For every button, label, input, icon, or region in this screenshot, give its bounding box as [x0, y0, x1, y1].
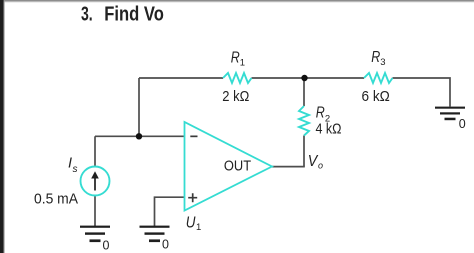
wire: R2 bottom lead down to output node: [303, 136, 305, 167]
svg-text:1: 1: [240, 57, 245, 68]
svg-text:2 kΩ: 2 kΩ: [222, 88, 249, 105]
wire: R3 to top-right corner, down to ground: [393, 78, 451, 107]
wire: left vertical from top corner down to inverting-input node: [138, 78, 140, 136]
ground (below op-amp plus input): [140, 226, 170, 242]
top window edge line: [0, 0, 474, 1]
op-amp minus pin symbol: [190, 136, 197, 138]
svg-text:1: 1: [196, 222, 201, 233]
svg-text:Find Vo: Find Vo: [104, 4, 164, 26]
resistor R3 (zigzag): [364, 73, 393, 83]
op-amp U1 triangle: [185, 122, 273, 211]
svg-text:I: I: [68, 156, 72, 172]
svg-text:6 kΩ: 6 kΩ: [362, 88, 390, 105]
left black sidebar: [0, 0, 4, 253]
svg-text:3: 3: [380, 57, 385, 68]
svg-text:3.: 3.: [81, 4, 93, 26]
svg-text:o: o: [318, 160, 323, 170]
wire: current source bottom to ground: [94, 196, 96, 227]
wire: op-amp output to Vo node: [272, 166, 305, 168]
ground (top right): [435, 107, 465, 121]
svg-text:0.5 mA: 0.5 mA: [34, 190, 78, 207]
svg-text:R: R: [316, 105, 325, 122]
wire: R2 top lead from junction: [303, 78, 305, 106]
wire: R1 right lead to junction to R3: [252, 77, 365, 79]
svg-text:OUT: OUT: [224, 159, 251, 175]
wire: noninverting input to ground stub: [155, 197, 185, 226]
op-amp plus pin symbol: [188, 193, 197, 202]
wire: inverting input horizontal from source top to op-amp: [95, 135, 185, 137]
svg-text:0: 0: [162, 238, 169, 252]
svg-text:4 kΩ: 4 kΩ: [316, 122, 342, 138]
svg-text:s: s: [73, 164, 78, 175]
current source arrow: [91, 171, 99, 190]
node: junction dot at R2 / top net: [301, 75, 307, 81]
svg-text:R: R: [231, 49, 240, 66]
current source Is circle: [81, 167, 110, 196]
svg-text:U: U: [186, 215, 196, 232]
svg-text:0: 0: [103, 238, 110, 252]
node: junction dot at inverting input net: [136, 133, 142, 139]
wire: from node down to current source top: [94, 136, 96, 167]
svg-text:0: 0: [459, 117, 466, 131]
svg-text:R: R: [371, 49, 380, 66]
wire: top net from left corner to R1: [139, 77, 223, 79]
resistor R1 (zigzag): [223, 73, 252, 83]
resistor R2 (vertical zigzag): [299, 106, 309, 136]
ground (left, below current source): [80, 226, 110, 242]
